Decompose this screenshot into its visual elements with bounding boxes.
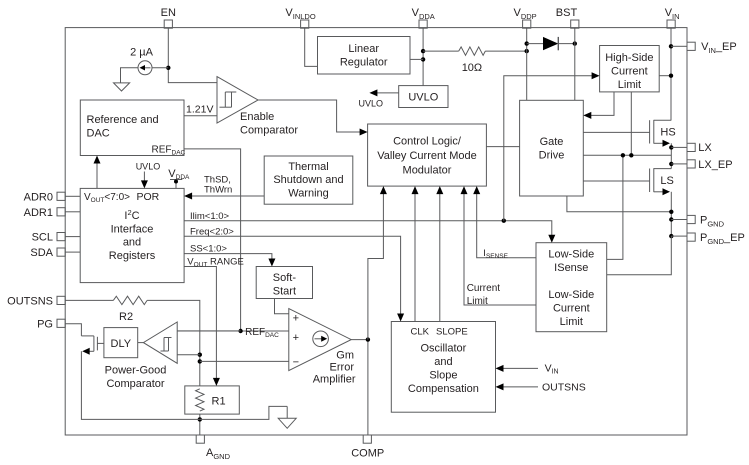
block Control Logic / Valley Current Mode Modulator bbox=[368, 124, 487, 186]
node EN junction bbox=[166, 66, 170, 70]
node COMP junction bbox=[366, 337, 370, 341]
block Reference and DAC bbox=[80, 100, 185, 157]
resistor R2 bbox=[113, 296, 147, 323]
block Low-Side ISense / Low-Side Current Limit bbox=[536, 243, 607, 332]
block UVLO bbox=[399, 86, 448, 108]
wire VDDA tap into I2C bbox=[168, 168, 190, 188]
svg-text:R2: R2 bbox=[119, 311, 133, 323]
wire COMP feedback up to control logic bbox=[368, 186, 387, 340]
svg-text:UVLO: UVLO bbox=[136, 162, 161, 172]
svg-text:Drive: Drive bbox=[539, 150, 565, 162]
pin ADR1 bbox=[24, 207, 66, 219]
pin BST bbox=[556, 7, 579, 28]
wire Ilim row from I2C to low-side current limit bbox=[184, 211, 555, 243]
block Soft-Start bbox=[256, 267, 312, 299]
pin VIN_EP bbox=[687, 41, 737, 55]
svg-text:COMP: COMP bbox=[351, 448, 384, 460]
svg-text:Limit: Limit bbox=[618, 79, 641, 91]
wire SCL pin to I2C bbox=[65, 236, 80, 238]
node VDDA-resistor junction bbox=[421, 49, 425, 53]
wire UVLO label arrow into I2C bbox=[136, 162, 161, 189]
svg-text:Freq<2:0>: Freq<2:0> bbox=[190, 226, 234, 237]
svg-text:SLOPE: SLOPE bbox=[436, 327, 468, 338]
block I2C Interface and Registers bbox=[80, 188, 184, 282]
block Oscillator and Slope Compensation bbox=[391, 322, 495, 413]
wire Ilim feed up to high-side current limit bbox=[504, 72, 600, 221]
wire VOUT RANGE row from I2C to R1 bbox=[184, 257, 244, 386]
pin LX bbox=[687, 142, 712, 154]
svg-text:Current: Current bbox=[553, 303, 590, 315]
wire LX sense tap down to low-side ISense bbox=[607, 155, 623, 259]
svg-text:10Ω: 10Ω bbox=[462, 62, 482, 74]
wire SS row from I2C to soft-start bbox=[184, 244, 275, 267]
wire gate drive return to PGND node bbox=[567, 196, 671, 212]
svg-text:HS: HS bbox=[660, 126, 675, 138]
svg-text:Oscillator: Oscillator bbox=[420, 343, 466, 355]
wire ADR1 pin to I2C bbox=[65, 211, 80, 213]
svg-text:LX_EP: LX_EP bbox=[698, 159, 732, 171]
wire R1 bottom to AGND pin bbox=[199, 414, 201, 435]
wire VDDP pin down to gate drive bbox=[526, 28, 528, 100]
transistor Q3 PG open-drain MOSFET bbox=[81, 336, 97, 355]
wire VIN pin down to HS drain bbox=[670, 28, 672, 120]
wire linear regulator output to VDDA line bbox=[410, 58, 423, 60]
wire LS source down to PGND bbox=[670, 192, 672, 236]
node REFDAC junction bbox=[238, 327, 279, 339]
wire SLOPE from oscillator up to control logic bbox=[436, 186, 443, 321]
svg-text:Shutdown and: Shutdown and bbox=[273, 174, 343, 186]
svg-text:DLY: DLY bbox=[111, 338, 132, 350]
block R1 feedback box bbox=[185, 386, 240, 414]
svg-text:Valley Current Mode: Valley Current Mode bbox=[377, 150, 476, 162]
ground symbol near error amplifier bbox=[278, 406, 296, 428]
node PGND_EP junction bbox=[669, 234, 673, 238]
ground symbol under current source bbox=[114, 75, 130, 91]
wire VDDA through 10 ohm resistor to VDDP line bbox=[423, 50, 527, 52]
wire OUTSNS pin through R2 to feedback node bbox=[65, 300, 200, 386]
svg-text:ISense: ISense bbox=[554, 262, 588, 274]
svg-text:Start: Start bbox=[273, 286, 296, 298]
wire AGND rail to analog ground symbol bbox=[200, 406, 287, 419]
wire PGND node to PGND_EP pin bbox=[671, 235, 687, 237]
svg-text:Reference and: Reference and bbox=[87, 114, 159, 126]
transistor Q1 HS high-side MOSFET bbox=[650, 120, 676, 147]
svg-text:Power-Good: Power-Good bbox=[105, 365, 167, 377]
wire high-side current limit to gate drive bbox=[583, 92, 614, 119]
svg-text:1.21V: 1.21V bbox=[186, 104, 213, 116]
svg-text:Ilim<1:0>: Ilim<1:0> bbox=[190, 211, 230, 222]
node Gm minus input junction bbox=[198, 359, 202, 363]
node Ilim junction to high-side feed bbox=[502, 219, 506, 223]
wire HS source down to LS drain (LX node) bbox=[670, 143, 672, 168]
svg-text:Limit: Limit bbox=[560, 316, 583, 328]
pin SDA bbox=[30, 247, 65, 259]
node PGND junction bbox=[669, 217, 673, 221]
block Gate Drive bbox=[520, 100, 584, 196]
node VDDA-regulator junction bbox=[421, 57, 425, 61]
pin OUTSNS bbox=[7, 295, 65, 307]
wire current source to ground bbox=[121, 68, 139, 76]
svg-text:ADR0: ADR0 bbox=[24, 191, 53, 203]
svg-text:LS: LS bbox=[660, 175, 673, 187]
node LX sense junction bbox=[621, 153, 625, 157]
svg-text:I2C: I2C bbox=[124, 208, 139, 222]
wire control logic to gate drive bbox=[486, 146, 519, 148]
resistor 10 ohm bbox=[459, 47, 486, 74]
svg-text:Interface: Interface bbox=[111, 224, 154, 236]
svg-text:Modulator: Modulator bbox=[403, 165, 452, 177]
svg-text:Warning: Warning bbox=[288, 188, 329, 200]
wire VDDA pin down to UVLO block bbox=[422, 28, 424, 85]
svg-text:OUTSNS: OUTSNS bbox=[7, 295, 53, 307]
pin PG bbox=[37, 318, 65, 330]
wire diode branch VDDP to BST bbox=[527, 43, 575, 45]
wire DLY to PG transistor gate bbox=[97, 342, 104, 344]
wire Gm amplifier output to COMP pin bbox=[351, 340, 368, 435]
block Thermal Shutdown and Warning bbox=[264, 156, 353, 204]
svg-text:Current: Current bbox=[611, 66, 648, 78]
svg-text:+: + bbox=[293, 312, 299, 324]
svg-text:Soft-: Soft- bbox=[273, 272, 297, 284]
wire oscillator OUTSNS input bbox=[496, 382, 586, 394]
svg-text:Current: Current bbox=[467, 283, 501, 294]
wire gate drive to HS gate bbox=[583, 131, 649, 133]
svg-text:POR: POR bbox=[137, 191, 160, 203]
pin PGND_EP bbox=[687, 232, 745, 246]
svg-text:+: + bbox=[293, 332, 299, 344]
wire PGND node to PGND pin bbox=[671, 219, 687, 221]
svg-text:−: − bbox=[293, 356, 299, 368]
block Linear Regulator bbox=[318, 37, 411, 75]
svg-text:Control Logic/: Control Logic/ bbox=[393, 136, 462, 148]
wire gate drive to LS gate bbox=[583, 180, 649, 182]
svg-text:Low-Side: Low-Side bbox=[548, 249, 594, 261]
pin EN bbox=[161, 7, 176, 28]
node AGND rail junction bbox=[198, 417, 202, 421]
svg-text:CLK: CLK bbox=[411, 327, 430, 338]
svg-text:Gate: Gate bbox=[540, 136, 564, 148]
resistor R1 (inside feedback box) bbox=[196, 389, 204, 411]
svg-text:Low-Side: Low-Side bbox=[548, 289, 594, 301]
wire SDA pin to I2C bbox=[65, 251, 80, 253]
svg-text:SDA: SDA bbox=[30, 247, 53, 259]
node gate-drive return junction bbox=[669, 210, 673, 214]
svg-text:SS<1:0>: SS<1:0> bbox=[190, 244, 227, 255]
svg-text:High-Side: High-Side bbox=[605, 52, 653, 64]
wire feedback node to Gm amplifier minus input bbox=[200, 360, 289, 362]
wire LX node to LX pin bbox=[671, 146, 687, 148]
pin VINLDO bbox=[285, 7, 315, 28]
svg-text:ThWrn: ThWrn bbox=[204, 185, 232, 196]
wire current source to EN line bbox=[152, 67, 168, 69]
wire CLK from oscillator up to control logic bbox=[412, 186, 419, 321]
wire VIN to VIN_EP pin bbox=[671, 45, 687, 47]
pin VDDP bbox=[514, 7, 537, 28]
svg-text:Thermal: Thermal bbox=[288, 161, 328, 173]
wire REFDAC from reference down to error amplifier input bbox=[184, 149, 241, 331]
svg-text:R1: R1 bbox=[212, 396, 226, 408]
svg-text:and: and bbox=[434, 356, 452, 368]
block High-Side Current Limit bbox=[600, 46, 660, 92]
node LX-HSCL junction bbox=[629, 153, 633, 157]
svg-text:UVLO: UVLO bbox=[359, 99, 384, 109]
pin VIN bbox=[665, 7, 680, 28]
node LX junction bbox=[669, 145, 673, 149]
op-amp U1 Enable Comparator bbox=[186, 77, 298, 137]
svg-text:EN: EN bbox=[161, 7, 176, 19]
op-amp U2 Power-Good Comparator bbox=[105, 322, 178, 390]
node diode-BST junction bbox=[573, 41, 577, 45]
node VDDP-diode junction bbox=[525, 41, 529, 45]
pin VDDA bbox=[412, 7, 435, 28]
node PG comparator input junction bbox=[198, 353, 202, 357]
wire LX node to LX_EP pin bbox=[671, 163, 687, 165]
pin LX_EP bbox=[687, 159, 733, 171]
svg-text:Gm: Gm bbox=[336, 350, 354, 362]
svg-text:SCL: SCL bbox=[32, 232, 53, 244]
svg-text:and: and bbox=[123, 237, 141, 249]
wire ISENSE from low-side block up to control logic bbox=[473, 186, 536, 260]
svg-text:ADR1: ADR1 bbox=[24, 207, 53, 219]
svg-text:PG: PG bbox=[37, 318, 53, 330]
pin ADR0 bbox=[24, 191, 66, 203]
svg-text:Limit: Limit bbox=[467, 296, 488, 307]
pin SCL bbox=[32, 232, 66, 244]
svg-text:Comparator: Comparator bbox=[240, 125, 298, 137]
svg-text:Amplifier: Amplifier bbox=[313, 374, 356, 386]
wire oscillator VIN input bbox=[496, 363, 559, 376]
diode D1 bootstrap bbox=[543, 37, 558, 50]
block DLY delay bbox=[104, 328, 138, 358]
wire high-side current limit to VIN line bbox=[659, 75, 671, 77]
op-amp U3 Gm Error Amplifier bbox=[289, 309, 356, 386]
wire PGND node to low-side ISense bbox=[607, 236, 672, 275]
wire enable comparator output to control logic bbox=[258, 100, 368, 136]
wire reference 1.21V to enable comparator bbox=[184, 115, 217, 117]
current source 2uA bbox=[130, 47, 154, 75]
wire ThSD ThWrn from thermal block to I2C bbox=[184, 175, 264, 200]
svg-text:DAC: DAC bbox=[87, 128, 110, 140]
svg-text:BST: BST bbox=[556, 7, 578, 19]
wire ADR0 pin to I2C bbox=[65, 195, 80, 197]
wire UVLO output arrow to left bbox=[359, 89, 399, 108]
wire feedback node to PG comparator lower input bbox=[177, 354, 200, 356]
wire VOUT<7:0> from I2C up to reference DAC bbox=[94, 156, 101, 189]
wire AGND rail to PG transistor source bbox=[81, 351, 199, 419]
svg-text:Registers: Registers bbox=[109, 250, 156, 262]
pin COMP bbox=[351, 435, 384, 460]
wire REFDAC row to PG comparator and Gm amplifier bbox=[177, 330, 289, 332]
wire BST pin down to gate drive bbox=[574, 28, 576, 100]
wire EN pin down bbox=[168, 28, 217, 82]
svg-text:2 µA: 2 µA bbox=[130, 47, 154, 59]
wire soft-start output to Gm amplifier + input bbox=[275, 299, 289, 314]
node VIN current-limit junction bbox=[669, 74, 673, 78]
transistor Q2 LS low-side MOSFET bbox=[650, 168, 674, 195]
svg-text:Linear: Linear bbox=[348, 43, 379, 55]
wire LX tap up to high-side current limit bbox=[630, 92, 632, 155]
wire PG comparator upper input row bbox=[177, 330, 240, 332]
wire PG comparator output to DLY bbox=[138, 342, 144, 344]
pin PGND bbox=[687, 214, 725, 228]
svg-text:Slope: Slope bbox=[429, 370, 457, 382]
node LX_EP junction bbox=[669, 162, 673, 166]
chip outline box bbox=[65, 28, 687, 435]
wire LX row from gate drive bbox=[583, 154, 671, 156]
svg-text:Comparator: Comparator bbox=[106, 378, 164, 390]
svg-text:LX: LX bbox=[698, 142, 712, 154]
wire Current Limit from low-side block up to control logic bbox=[461, 186, 537, 307]
pin AGND bbox=[196, 435, 230, 461]
wire VINLDO pin to linear regulator bbox=[305, 28, 318, 66]
wire PG pin to PG transistor drain bbox=[65, 324, 81, 336]
svg-text:UVLO: UVLO bbox=[408, 92, 438, 104]
svg-text:OUTSNS: OUTSNS bbox=[542, 382, 586, 394]
node resistor-VDDP junction bbox=[525, 49, 529, 53]
node VIN EP junction bbox=[669, 44, 673, 48]
svg-text:Error: Error bbox=[330, 362, 355, 374]
svg-text:Compensation: Compensation bbox=[408, 383, 479, 395]
wire Freq row from I2C to oscillator bbox=[184, 226, 404, 321]
svg-text:Enable: Enable bbox=[240, 111, 274, 123]
svg-text:VIN_EP: VIN_EP bbox=[701, 41, 737, 55]
svg-text:Regulator: Regulator bbox=[340, 57, 388, 69]
